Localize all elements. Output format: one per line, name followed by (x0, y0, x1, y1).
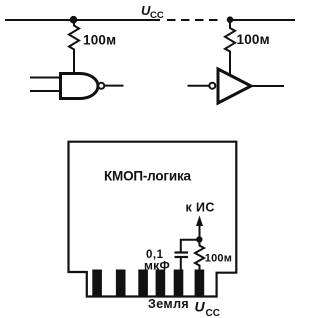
gate NAND U1 (61, 74, 99, 99)
IC package outline (КМОП-логика box) (69, 142, 237, 297)
resistor R1 100м (left) (69, 20, 79, 52)
svg-text:мкФ: мкФ (144, 259, 170, 273)
svg-text:U: U (195, 299, 206, 315)
resistor R3 100м (inside package) (195, 242, 204, 270)
wire R2 to inverter top (229, 52, 231, 76)
svg-text:Земля: Земля (148, 297, 189, 311)
capacitor C1 plates (175, 251, 189, 253)
svg-text:CC: CC (206, 308, 220, 318)
wire dot C to capacitor (181, 240, 200, 252)
pin 2 (116, 270, 126, 296)
wire NAND input 2 (30, 90, 59, 92)
node junction dot B (right, on rail) (227, 16, 234, 23)
svg-text:100м: 100м (237, 32, 270, 47)
svg-text:100м: 100м (205, 253, 232, 265)
node junction dot A (left, on rail) (70, 16, 78, 24)
pin 4 (156, 270, 166, 296)
wire NAND input 1 (30, 77, 59, 79)
arrow to IC (up) (199, 224, 201, 239)
wire inverter output (251, 85, 284, 87)
svg-text:CC: CC (150, 10, 164, 21)
wire Ucc rail dashed segment (167, 19, 218, 21)
svg-text:КМОП-логика: КМОП-логика (104, 169, 192, 184)
wire NAND output (105, 85, 124, 87)
wire capacitor to pin 5 (180, 258, 182, 270)
pin 1 (92, 270, 102, 296)
wire Ucc rail left solid segment (5, 19, 160, 21)
resistor R2 100м (right) (225, 20, 235, 52)
NAND output bubble (98, 83, 104, 89)
svg-text:100м: 100м (83, 33, 116, 48)
wire R1 to NAND top (73, 52, 75, 73)
pin 6 (Ucc) (195, 270, 205, 296)
wire Ucc rail right solid segment (230, 19, 295, 21)
pin 3 (138, 270, 148, 296)
inverter input bubble (209, 83, 215, 89)
svg-text:к ИС: к ИС (186, 201, 215, 215)
node junction dot C (cap/resistor) (196, 236, 202, 242)
wire inverter input (188, 85, 210, 87)
pin 5 (Земля) (174, 270, 184, 296)
gate inverter U2 (triangle) (218, 69, 251, 103)
